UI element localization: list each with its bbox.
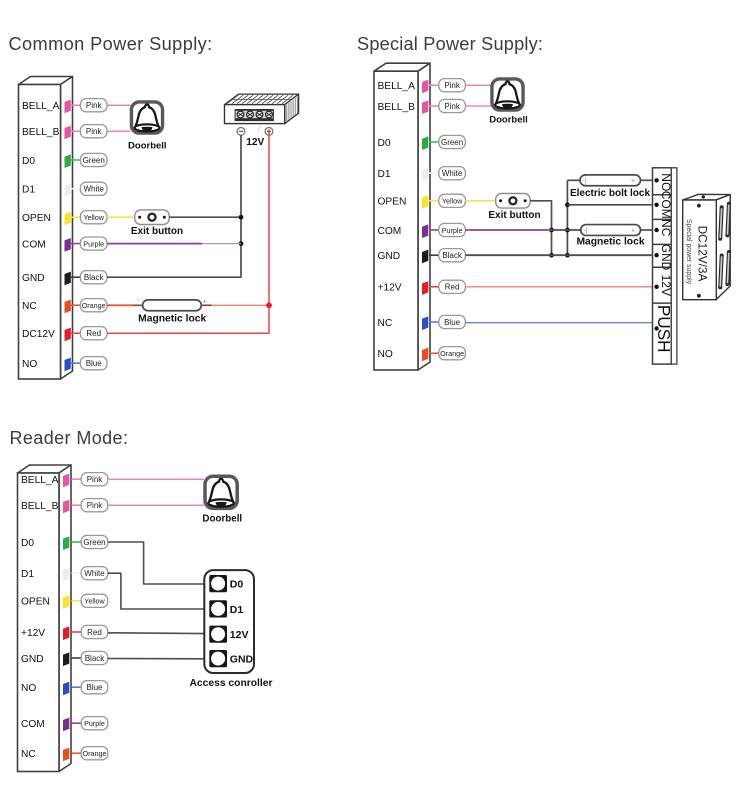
svg-text:GND: GND — [378, 251, 401, 262]
colour label White (J2-D1) — [439, 167, 466, 180]
junction terminal dot GND — [654, 253, 658, 257]
svg-text:OPEN: OPEN — [378, 197, 407, 208]
svg-text:Purple: Purple — [83, 240, 104, 249]
PSU vent slot highlights — [720, 205, 729, 286]
wire +12V red wire (special) — [465, 286, 652, 288]
svg-text:NC: NC — [659, 219, 673, 237]
colour label Orange (J1-NC) — [80, 299, 107, 312]
pin tab GND colour black (J1 common) — [65, 272, 71, 286]
svg-text:D0: D0 — [21, 538, 34, 549]
svg-text:NO: NO — [659, 173, 673, 191]
wire COM purple segment 2 — [202, 243, 241, 245]
svg-text:NC: NC — [378, 318, 393, 329]
svg-text:COM: COM — [378, 226, 402, 237]
svg-text:Orange: Orange — [83, 749, 107, 758]
svg-text:BELL_B: BELL_B — [378, 102, 416, 113]
access controller — [204, 570, 254, 673]
pin tab D1 colour white (J2 special) — [422, 168, 428, 182]
junction COM/minus junction — [239, 241, 244, 246]
colour label Black (J3-GND) — [81, 651, 108, 664]
svg-text:+12V: +12V — [378, 283, 402, 294]
svg-text:Purple: Purple — [442, 226, 463, 235]
colour label Pink (J3-BELL_B) — [81, 499, 108, 512]
wire +12V wire to controller — [108, 632, 205, 635]
wire stub Pink (J3-BELL_B) — [71, 504, 81, 506]
svg-text:D1: D1 — [22, 185, 35, 196]
wire BELL_A pink to doorbell (special) — [465, 84, 491, 86]
wire stub Green (J3-D0) — [71, 541, 81, 543]
wire stub Yellow (J2-OPEN) — [429, 200, 439, 202]
svg-text:-: - — [137, 297, 140, 304]
wire stub Black (J1-GND) — [71, 276, 81, 278]
terminal board J2 special — [374, 63, 430, 370]
pin tab OPEN colour yellow (J3 reader) — [63, 595, 69, 609]
wire stub Pink (J1-BELL_B) — [71, 130, 81, 132]
svg-text:Yellow: Yellow — [83, 213, 104, 222]
svg-text:Pink: Pink — [87, 501, 104, 510]
wire stub White (J1-D1) — [71, 188, 81, 190]
colour label Pink (J1-BELL_B) — [80, 125, 107, 138]
pin tab NO colour orange (J2 special) — [422, 348, 428, 362]
wire NC orange to magnetic lock — [107, 304, 133, 306]
colour label White (J1-D1) — [80, 182, 107, 195]
svg-text:+: + — [631, 228, 635, 235]
wire D1 white data wire — [108, 573, 205, 609]
svg-text:Green: Green — [83, 538, 105, 547]
pin tab D0 colour green (J3 reader) — [63, 536, 69, 550]
colour label Green (J3-D0) — [81, 535, 108, 548]
svg-text:D1: D1 — [378, 169, 391, 180]
pin tab +12V colour red (J3 reader) — [63, 626, 69, 640]
svg-text:12V: 12V — [246, 137, 264, 148]
colour label White (J3-D1) — [81, 567, 108, 580]
svg-text:Electric bolt lock: Electric bolt lock — [570, 188, 650, 199]
svg-text:GND: GND — [230, 654, 254, 666]
wire COM purple wire (special) — [465, 229, 551, 231]
svg-text:+: + — [203, 299, 207, 306]
wire magnetic lock right lead — [201, 304, 211, 306]
svg-text:OPEN: OPEN — [22, 213, 51, 224]
svg-text:12V: 12V — [659, 275, 673, 296]
svg-text:D0: D0 — [230, 579, 244, 591]
wire BELL_B pink to doorbell — [107, 130, 131, 132]
svg-text:GND: GND — [659, 244, 673, 270]
colour label Green (J1-D0) — [80, 153, 107, 166]
svg-text:Special power supply: Special power supply — [685, 219, 692, 285]
svg-text:White: White — [442, 169, 463, 178]
svg-text:Blue: Blue — [444, 318, 461, 327]
svg-text:Common Power Supply:: Common Power Supply: — [9, 34, 213, 54]
colour label Blue (J3-NO) — [81, 681, 108, 694]
colour label Green (J2-D0) — [439, 135, 466, 148]
svg-text:COM: COM — [21, 719, 45, 730]
svg-text:White: White — [83, 185, 104, 194]
wire stub Pink (J1-BELL_A) — [71, 104, 81, 106]
junction terminal dot PUSH — [654, 326, 658, 330]
special power supply box — [683, 194, 731, 299]
colour label Blue (J2-NC) — [439, 315, 466, 328]
pin tab NC colour orange (J1 common) — [65, 300, 71, 314]
colour label Purple (J1-COM) — [80, 237, 107, 250]
svg-text:GND: GND — [22, 273, 45, 284]
wire stub Green (J2-D0) — [429, 141, 439, 143]
pin tab BELL_A colour pink (J3 reader) — [63, 474, 69, 488]
svg-text:Blue: Blue — [86, 359, 103, 368]
pin tab NC colour blue (J2 special) — [422, 316, 428, 330]
wire stub White (J2-D1) — [429, 172, 439, 174]
svg-text:D0: D0 — [22, 156, 35, 167]
junction plus/NC junction — [266, 302, 272, 308]
svg-text:Magnetic lock: Magnetic lock — [576, 237, 644, 248]
pin tab NO colour blue (J1 common) — [65, 358, 71, 372]
pin tab BELL_B colour pink (J2 special) — [422, 100, 428, 114]
svg-text:Pink: Pink — [86, 101, 103, 110]
doorbell icon reader — [205, 476, 237, 508]
junction exit bus / COM junction — [549, 228, 554, 233]
colour label Yellow (J2-OPEN) — [439, 194, 466, 207]
wire BELL_A pink to doorbell (reader) — [108, 478, 204, 480]
decorative slash artifact — [258, 124, 262, 133]
wire plus bus vertical — [107, 131, 269, 333]
colour label Blue (J1-NO) — [80, 357, 107, 370]
wire COM purple segment 1 — [107, 243, 202, 245]
junction lock bus / NC line junction — [565, 228, 570, 233]
wire magnetic lock to NC terminal — [641, 229, 653, 231]
svg-text:D0: D0 — [378, 138, 391, 149]
svg-text:Purple: Purple — [84, 719, 105, 728]
colour label Orange (J2-NO) — [439, 347, 466, 360]
wire minus bus vertical — [107, 135, 241, 277]
wire COM to magnetic lock lead — [552, 229, 581, 231]
svg-text:NO: NO — [21, 683, 36, 694]
pin tab GND colour black (J3 reader) — [63, 652, 69, 666]
wire BELL_B pink to doorbell (special) — [465, 105, 491, 107]
wire electric bolt lock to NO terminal — [641, 179, 653, 181]
svg-text:Magnetic lock: Magnetic lock — [138, 314, 206, 325]
doorbell icon special — [492, 79, 523, 110]
wire OPEN yellow to exit button — [107, 216, 135, 218]
power terminal strip (NO COM NC GND 12V PUSH) — [653, 168, 677, 364]
wire stub Pink (J3-BELL_A) — [71, 478, 81, 480]
magnetic lock (special) — [581, 225, 641, 236]
pin tab OPEN colour yellow (J2 special) — [422, 195, 428, 209]
svg-text:Pink: Pink — [444, 102, 461, 111]
wire stub Orange (J2-NO) — [429, 352, 439, 354]
svg-text:NO: NO — [22, 359, 37, 370]
svg-text:12V: 12V — [230, 629, 249, 641]
svg-text:Reader Mode:: Reader Mode: — [10, 428, 129, 448]
wire BELL_A pink to doorbell — [107, 104, 131, 106]
wire OPEN yellow to exit button (special) — [465, 200, 495, 202]
12V power adapter (common) — [222, 94, 308, 124]
wire stub Blue (J3-NO) — [71, 686, 81, 688]
svg-text:Blue: Blue — [86, 683, 103, 692]
wire stub Black (J3-GND) — [71, 657, 81, 659]
svg-text:Doorbell: Doorbell — [202, 514, 242, 525]
svg-text:-|: -| — [583, 228, 587, 235]
pin tab D1 colour white (J3 reader) — [63, 568, 69, 582]
wire stub Yellow (J1-OPEN) — [71, 216, 81, 218]
svg-text:Red: Red — [445, 283, 460, 292]
wire lock bus vertical — [566, 180, 568, 255]
adapter plus terminal — [265, 127, 273, 135]
wire stub Orange (J3-NC) — [71, 752, 81, 754]
svg-text:Orange: Orange — [440, 349, 464, 358]
svg-text:DC12V: DC12V — [22, 329, 55, 340]
pin tab BELL_B colour pink (J1 common) — [65, 126, 71, 140]
svg-text:Black: Black — [84, 273, 105, 282]
junction terminal dot COM — [654, 203, 658, 207]
wire stub Yellow (J3-OPEN) — [71, 600, 81, 602]
pin tab D1 colour white (J1 common) — [65, 183, 71, 197]
colour label Pink (J1-BELL_A) — [80, 99, 107, 112]
colour label Pink (J3-BELL_A) — [81, 473, 108, 486]
wire stub Red (J2-+12V) — [429, 286, 439, 288]
colour label Pink (J2-BELL_A) — [439, 79, 466, 92]
svg-text:+: + — [631, 178, 635, 185]
wire exit button to minus bus — [169, 216, 241, 218]
svg-text:OPEN: OPEN — [21, 597, 50, 608]
svg-text:BELL_B: BELL_B — [22, 127, 60, 138]
colour label Yellow (J3-OPEN) — [81, 594, 108, 607]
terminal board J3 reader — [18, 465, 72, 772]
pin tab GND colour black (J2 special) — [422, 250, 428, 264]
svg-text:Exit button: Exit button — [131, 226, 183, 237]
wire stub Green (J1-D0) — [71, 159, 81, 161]
pin tab NC colour orange (J3 reader) — [63, 748, 69, 762]
exit button common — [135, 210, 169, 225]
pin tab BELL_A colour pink (J1 common) — [65, 100, 71, 114]
wire stub Blue (J1-NO) — [71, 362, 81, 364]
exit button special — [496, 194, 530, 209]
wire magnetic lock to plus bus — [212, 304, 270, 306]
colour label Red (J3-+12V) — [81, 625, 108, 638]
wire stub Blue (J2-NC) — [429, 321, 439, 323]
svg-text:D1: D1 — [21, 569, 34, 580]
magnetic lock (common) — [137, 297, 207, 311]
wire stub Purple (J1-COM) — [71, 243, 81, 245]
junction lock bus / GND junction — [565, 253, 570, 258]
pin tab BELL_B colour pink (J3 reader) — [63, 500, 69, 514]
wire BELL_B pink to doorbell (reader) — [108, 504, 204, 506]
pin tab COM colour purple (J3 reader) — [63, 718, 69, 732]
svg-text:NC: NC — [22, 301, 37, 312]
svg-text:Doorbell: Doorbell — [128, 141, 167, 152]
svg-text:NC: NC — [21, 749, 36, 760]
wire stub Pink (J2-BELL_A) — [429, 84, 439, 86]
colour label Black (J1-GND) — [80, 271, 107, 284]
svg-text:Pink: Pink — [444, 81, 461, 90]
junction terminal dot 12V — [654, 285, 658, 289]
pin tab BELL_A colour pink (J2 special) — [422, 80, 428, 94]
wire GND wire to controller — [108, 658, 205, 660]
colour label Red (J1-DC12V) — [80, 327, 107, 340]
svg-text:NO: NO — [378, 349, 393, 360]
svg-text:Green: Green — [441, 138, 463, 147]
colour label Yellow (J1-OPEN) — [80, 211, 107, 224]
wire stub Red (J1-DC12V) — [71, 332, 81, 334]
svg-text:Orange: Orange — [82, 301, 106, 310]
svg-text:BELL_A: BELL_A — [22, 101, 60, 112]
wire stub Pink (J2-BELL_B) — [429, 105, 439, 107]
wire stub Purple (J2-COM) — [429, 229, 439, 231]
junction lock bus / COM line junction — [565, 202, 570, 207]
pin tab OPEN colour yellow (J1 common) — [65, 212, 71, 226]
wire GND black wire (special) — [465, 254, 652, 256]
wire exit button output bus — [530, 201, 551, 255]
colour label Orange (J3-NC) — [81, 747, 108, 760]
colour label Purple (J3-COM) — [81, 717, 108, 730]
svg-text:-|: -| — [583, 178, 587, 185]
svg-text:Green: Green — [83, 156, 105, 165]
junction terminal dot NO — [654, 178, 658, 182]
svg-text:COM: COM — [22, 239, 46, 250]
svg-text:Pink: Pink — [86, 127, 103, 136]
svg-text:Yellow: Yellow — [442, 197, 463, 206]
wire NC blue wire (special) — [465, 322, 652, 324]
svg-text:D1: D1 — [230, 604, 244, 616]
svg-text:Special Power Supply:: Special Power Supply: — [357, 34, 543, 54]
electric bolt lock — [580, 175, 641, 186]
svg-text:Yellow: Yellow — [84, 597, 105, 606]
svg-text:GND: GND — [21, 654, 44, 665]
wire D0 green data wire — [108, 542, 205, 584]
pin tab COM colour purple (J1 common) — [65, 238, 71, 252]
junction exit/minus junction — [239, 215, 244, 220]
svg-text:BELL_A: BELL_A — [378, 81, 416, 92]
adapter minus terminal — [237, 127, 245, 135]
svg-text:Doorbell: Doorbell — [489, 115, 528, 126]
wire COM line to terminal — [567, 204, 652, 206]
wire magnetic lock left lead — [133, 304, 143, 306]
pin tab D0 colour green (J2 special) — [422, 136, 428, 150]
pin tab DC12V colour red (J1 common) — [65, 328, 71, 342]
colour label Red (J2-+12V) — [439, 280, 466, 293]
colour label Pink (J2-BELL_B) — [439, 99, 466, 112]
wire electric bolt lock left lead — [567, 179, 580, 181]
pin tab D0 colour green (J1 common) — [65, 154, 71, 168]
wire stub Black (J2-GND) — [429, 254, 439, 256]
svg-text:BELL_B: BELL_B — [21, 501, 59, 512]
wire stub White (J3-D1) — [71, 572, 81, 574]
junction terminal dot NC — [654, 228, 658, 232]
svg-text:Red: Red — [87, 628, 102, 637]
svg-text:Exit button: Exit button — [488, 210, 540, 221]
svg-text:DC12V/3A: DC12V/3A — [695, 226, 709, 282]
junction exit bus / GND junction — [549, 253, 554, 258]
svg-text:Black: Black — [85, 654, 106, 663]
svg-text:White: White — [84, 569, 105, 578]
colour label Black (J2-GND) — [439, 249, 466, 262]
terminal board J1 common — [19, 77, 73, 380]
svg-text:+12V: +12V — [21, 628, 45, 639]
svg-text:Pink: Pink — [87, 475, 104, 484]
wire stub Red (J3-+12V) — [71, 631, 81, 633]
pin tab +12V colour red (J2 special) — [422, 281, 428, 295]
svg-text:COM: COM — [659, 191, 673, 219]
wire stub Purple (J3-COM) — [71, 722, 81, 724]
doorbell icon common — [131, 102, 162, 133]
svg-text:Red: Red — [86, 329, 101, 338]
pin tab COM colour purple (J2 special) — [422, 224, 428, 238]
svg-text:Access conroller: Access conroller — [190, 678, 273, 689]
svg-text:Black: Black — [442, 251, 463, 260]
colour label Purple (J2-COM) — [439, 223, 466, 236]
pin tab NO colour blue (J3 reader) — [63, 682, 69, 696]
wire stub Orange (J1-NC) — [71, 304, 81, 306]
svg-text:BELL_A: BELL_A — [21, 475, 59, 486]
